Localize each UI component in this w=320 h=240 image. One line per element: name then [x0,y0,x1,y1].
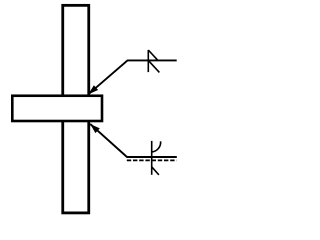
wire lower leader [90,124,177,157]
wire upper leader [88,60,176,94]
weld symbol U2 J-groove over bevel [152,141,161,175]
weld symbol U1 fillet over bevel [148,50,159,72]
arrowhead upper [88,85,98,94]
vertical plate [63,5,89,213]
dashed identification line [127,159,177,161]
arrowhead lower [90,124,100,133]
horizontal plate [12,96,102,121]
